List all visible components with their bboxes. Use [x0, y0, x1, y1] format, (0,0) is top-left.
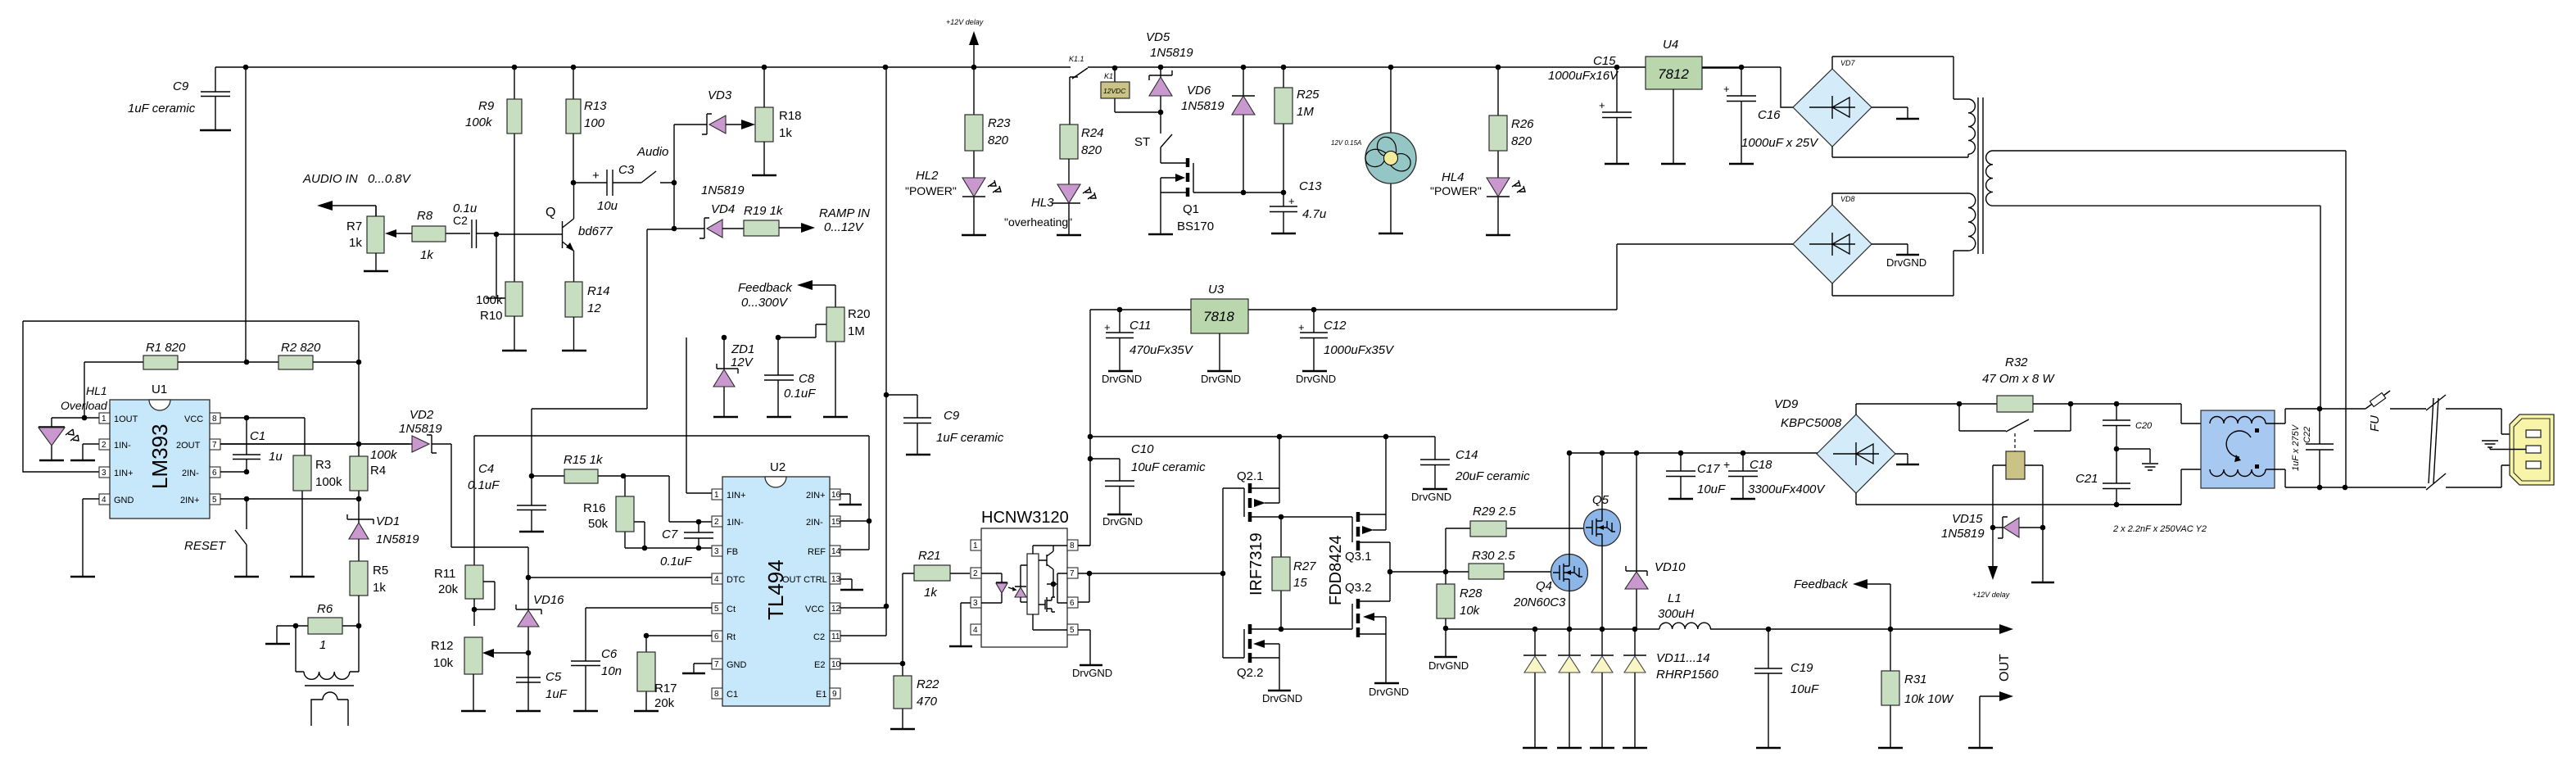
svg-text:VD6: VD6	[1187, 84, 1211, 97]
svg-text:10k: 10k	[433, 656, 454, 670]
svg-text:8: 8	[212, 414, 217, 423]
svg-text:R29 2.5: R29 2.5	[1473, 505, 1516, 519]
svg-text:5: 5	[212, 496, 217, 505]
ground K1 coil right	[2042, 528, 2044, 582]
svg-text:C11: C11	[1130, 319, 1151, 333]
wire Q4/Q5 sources to output rail	[1569, 546, 1602, 629]
svg-text:3: 3	[102, 469, 106, 478]
svg-text:2: 2	[102, 441, 106, 450]
fuse FU	[2320, 391, 2426, 432]
wire U2 pin11 C2 up	[840, 608, 886, 636]
svg-text:1k: 1k	[420, 248, 434, 262]
wire base wire to Q	[496, 233, 562, 235]
svg-text:R15 1k: R15 1k	[564, 453, 604, 467]
svg-text:1000uFx16V: 1000uFx16V	[1548, 69, 1619, 83]
svg-text:1IN-: 1IN-	[727, 518, 744, 528]
potentiometer R11	[434, 565, 495, 626]
resistor R13	[566, 67, 607, 183]
svg-text:0.1uF: 0.1uF	[660, 555, 692, 568]
wire U1 pin7 2OUT row	[220, 443, 410, 445]
svg-text:7818: 7818	[1203, 309, 1234, 324]
svg-text:C1: C1	[727, 690, 738, 700]
svg-text:KBPC5008: KBPC5008	[1781, 416, 1842, 430]
wire U2 pin10 E2	[840, 663, 903, 664]
svg-text:300uH: 300uH	[1658, 607, 1694, 621]
svg-text:+12V delay: +12V delay	[1972, 591, 2010, 599]
ground C20/C21 mid earth	[2116, 449, 2150, 463]
wire VD8 right DrvGND	[1872, 244, 1908, 254]
svg-text:HCNW3120: HCNW3120	[981, 509, 1069, 527]
svg-text:1N5819: 1N5819	[1181, 99, 1225, 113]
svg-text:"POWER": "POWER"	[905, 184, 957, 197]
svg-text:10k: 10k	[1460, 604, 1481, 618]
capacitor C22	[2291, 406, 2347, 491]
svg-text:12VDC: 12VDC	[1103, 87, 1126, 95]
svg-text:10u: 10u	[597, 199, 618, 213]
wire VD7 to winding1	[1832, 57, 1968, 157]
svg-text:DrvGND: DrvGND	[1072, 667, 1112, 679]
svg-text:R32: R32	[2005, 356, 2028, 369]
svg-text:C9: C9	[173, 79, 189, 93]
resistor R17	[634, 633, 712, 711]
svg-text:R18: R18	[779, 109, 802, 123]
resistor R32	[1982, 356, 2116, 412]
wire audio-in arrow	[324, 206, 376, 233]
svg-text:+12V delay: +12V delay	[946, 18, 984, 26]
svg-text:C1: C1	[250, 429, 265, 443]
svg-text:R24: R24	[1081, 126, 1104, 140]
svg-text:100k: 100k	[370, 448, 398, 462]
winding primary T1	[1986, 151, 2346, 206]
svg-text:1N5819: 1N5819	[399, 422, 442, 436]
wire HV rail y553	[1569, 452, 1818, 454]
svg-text:100k: 100k	[476, 293, 503, 307]
svg-text:10uF: 10uF	[1791, 682, 1819, 696]
svg-text:R17: R17	[654, 682, 677, 695]
svg-text:C9: C9	[944, 409, 960, 423]
bridge VD7	[1793, 59, 1872, 147]
svg-text:BS170: BS170	[1177, 220, 1214, 233]
svg-text:U4: U4	[1663, 38, 1678, 52]
svg-text:Q: Q	[546, 206, 555, 220]
svg-text:R16: R16	[583, 501, 606, 515]
svg-text:R21: R21	[918, 549, 941, 563]
label Feedback right	[1794, 577, 1890, 629]
svg-text:K1.1: K1.1	[1069, 55, 1084, 63]
bridge VD8	[1793, 195, 1872, 283]
wire DrvVCC rail x1331	[1078, 310, 1090, 546]
resistor R3	[290, 455, 342, 577]
svg-text:VD1: VD1	[376, 514, 400, 528]
svg-text:Feedback: Feedback	[738, 281, 793, 295]
svg-text:1: 1	[973, 541, 978, 550]
capacitor C8	[764, 335, 816, 417]
svg-text:820: 820	[1511, 134, 1532, 148]
node base junction	[494, 232, 500, 238]
wire R10 wiper tap	[486, 234, 505, 298]
svg-text:1uF ceramic: 1uF ceramic	[936, 431, 1004, 445]
rheostat R16	[583, 476, 712, 548]
wire DTC node column VD16/C5	[494, 577, 528, 710]
svg-text:1IN-: 1IN-	[114, 441, 131, 451]
svg-text:8: 8	[1070, 541, 1075, 550]
capacitor C21	[2076, 446, 2130, 505]
svg-text:6: 6	[212, 469, 217, 478]
wire U2 pin13 ground	[840, 579, 852, 589]
svg-text:HL4: HL4	[1442, 170, 1465, 184]
svg-text:10uF ceramic: 10uF ceramic	[1131, 460, 1206, 474]
wire U-opto pin8	[1078, 545, 1090, 546]
wire U2 pin12 VCC	[840, 606, 886, 608]
svg-text:11: 11	[831, 632, 840, 641]
svg-text:C2: C2	[453, 214, 468, 227]
svg-text:RHRP1560: RHRP1560	[1656, 668, 1719, 682]
diode VD4	[674, 202, 744, 238]
svg-text:DrvGND: DrvGND	[1428, 659, 1469, 672]
wire VD9 bottom to y616	[1856, 493, 2181, 505]
svg-text:2: 2	[973, 569, 978, 578]
capacitor C1	[233, 418, 283, 472]
svg-text:C22: C22	[2302, 427, 2312, 443]
ground HL1 second	[83, 444, 102, 460]
wire U4 out	[1702, 67, 1741, 69]
transistor Q bd677	[546, 183, 613, 282]
wire U-opto pin3 ground	[961, 603, 971, 645]
node audio switch node	[672, 180, 677, 186]
svg-text:VD11...14: VD11...14	[1656, 651, 1710, 665]
svg-text:0...0.8V: 0...0.8V	[368, 172, 412, 186]
svg-text:C3: C3	[618, 163, 635, 177]
svg-text:20k: 20k	[438, 582, 459, 596]
wire rail y533 to right	[1090, 437, 1435, 460]
wire R1-R2 row	[84, 362, 359, 418]
svg-text:R14: R14	[587, 284, 610, 298]
svg-text:1N5819: 1N5819	[376, 532, 419, 546]
svg-text:VD8: VD8	[1840, 195, 1855, 203]
label +12V delay top	[946, 18, 984, 67]
svg-text:1000uF x 25V: 1000uF x 25V	[1741, 136, 1819, 150]
svg-text:2IN+: 2IN+	[806, 491, 826, 500]
svg-text:C18: C18	[1750, 458, 1772, 472]
wire U1 pin4 GND	[83, 499, 99, 576]
diode VD1	[347, 499, 419, 561]
svg-text:R4: R4	[370, 464, 386, 478]
resistor R8	[385, 209, 470, 262]
svg-text:5: 5	[1070, 626, 1075, 635]
svg-text:C17: C17	[1697, 462, 1720, 476]
svg-text:R26: R26	[1511, 117, 1534, 131]
svg-text:1IN+: 1IN+	[114, 469, 134, 478]
wire R32 row to choke	[2116, 404, 2210, 505]
resistor R14	[562, 282, 610, 351]
diode VD15	[1941, 512, 2045, 541]
svg-text:2 x 2.2nF x 250VAC Y2: 2 x 2.2nF x 250VAC Y2	[2112, 524, 2207, 534]
resistor R2	[278, 341, 321, 369]
transformer core	[305, 685, 354, 686]
svg-text:DrvGND: DrvGND	[1411, 491, 1451, 503]
bridge VD9 KBPC5008	[1774, 397, 1895, 493]
relay-coil K1	[1070, 66, 1161, 125]
svg-text:C16: C16	[1758, 108, 1781, 122]
capacitor C20	[2103, 401, 2153, 449]
potentiometer R7	[346, 206, 388, 271]
switch RESET	[235, 530, 247, 576]
svg-text:R19 1k: R19 1k	[744, 204, 784, 218]
winding aux2	[1968, 193, 1976, 251]
svg-text:Q4: Q4	[1536, 579, 1552, 593]
svg-text:DrvGND: DrvGND	[1262, 692, 1302, 704]
svg-text:3: 3	[714, 547, 719, 556]
zener ZD1	[713, 335, 754, 417]
svg-text:C15: C15	[1593, 54, 1616, 68]
wire VD8 output to U3 rail	[1090, 244, 1793, 310]
svg-text:1N5819: 1N5819	[701, 183, 745, 197]
svg-text:bd677: bd677	[578, 224, 613, 238]
capacitor C7	[660, 522, 713, 568]
node C3 junction	[571, 180, 577, 186]
connector mains inlet	[2482, 414, 2554, 485]
svg-text:1N5819: 1N5819	[1941, 527, 1985, 541]
wire R15 to U2 pin2	[623, 476, 712, 522]
wire gate drive pin7 to IRF gates	[1078, 573, 1223, 602]
svg-text:1k: 1k	[779, 126, 792, 140]
svg-text:GND: GND	[114, 496, 134, 505]
diode VD10	[1625, 453, 1686, 629]
capacitor C14	[1411, 448, 1530, 503]
svg-text:R1 820: R1 820	[146, 341, 186, 355]
svg-text:"POWER": "POWER"	[1430, 184, 1482, 197]
wire Q4/Q5 drains to HV rail	[1569, 453, 1602, 555]
ground R28 DrvGND	[1445, 628, 1446, 656]
wire FDD midpoint to gate resistors	[1390, 571, 1446, 573]
resistor R6	[277, 602, 359, 652]
transformer current sense primary	[296, 626, 359, 679]
svg-text:10n: 10n	[601, 664, 622, 678]
svg-text:R22: R22	[917, 677, 939, 691]
svg-text:VCC: VCC	[805, 605, 824, 614]
svg-text:OUT CTRL: OUT CTRL	[782, 575, 827, 585]
svg-text:7: 7	[714, 660, 719, 669]
capacitor C17	[1666, 453, 1726, 499]
svg-text:C5: C5	[546, 670, 562, 684]
svg-text:R28: R28	[1460, 587, 1483, 600]
svg-text:8: 8	[714, 690, 719, 699]
svg-text:R6: R6	[317, 602, 333, 616]
svg-text:10k 10W: 10k 10W	[1904, 692, 1954, 706]
diode VD2	[220, 408, 528, 577]
switch K1.1 in rail	[1069, 55, 1088, 79]
ground Q3.2 DrvGND	[1374, 682, 1399, 685]
switch Audio select	[641, 171, 674, 183]
LED HL1	[38, 384, 108, 460]
diode VD5	[1146, 30, 1193, 112]
label OUT + arrows	[1968, 654, 2013, 748]
LED HL3	[1004, 184, 1096, 235]
svg-text:2IN-: 2IN-	[806, 518, 823, 528]
svg-text:4.7u: 4.7u	[1302, 207, 1327, 221]
svg-text:VD10: VD10	[1655, 560, 1686, 574]
capacitor C13	[1270, 179, 1327, 233]
svg-text:"overheating": "overheating"	[1004, 215, 1072, 229]
svg-text:+: +	[1599, 99, 1605, 111]
wire VD9 top to R32 row	[1856, 404, 1997, 414]
svg-text:13: 13	[831, 575, 841, 584]
svg-text:U2: U2	[770, 460, 785, 474]
mosfet Q5	[1584, 493, 1621, 546]
svg-text:Q1: Q1	[1183, 202, 1199, 216]
svg-text:2IN+: 2IN+	[180, 496, 200, 505]
svg-text:14: 14	[831, 547, 841, 556]
svg-text:C8: C8	[799, 372, 815, 386]
svg-text:C20: C20	[2135, 421, 2153, 431]
svg-text:1M: 1M	[1297, 105, 1314, 119]
rheostat R20	[778, 280, 871, 417]
svg-text:7812: 7812	[1658, 66, 1689, 82]
svg-text:1: 1	[319, 638, 326, 652]
svg-text:9: 9	[832, 690, 837, 699]
choke common-mode T2	[2201, 409, 2320, 488]
svg-text:10uF: 10uF	[1697, 482, 1726, 496]
svg-text:47 Om x 8 W: 47 Om x 8 W	[1982, 372, 2055, 386]
switch R32 bypass	[1959, 404, 2071, 432]
wire U1 pin5 row	[220, 499, 359, 529]
svg-text:Ct: Ct	[727, 605, 736, 614]
svg-text:R27: R27	[1293, 559, 1316, 573]
svg-text:L1: L1	[1668, 591, 1682, 605]
resistor R29	[1446, 505, 1584, 572]
svg-text:1: 1	[102, 414, 106, 423]
svg-text:+: +	[1104, 321, 1111, 333]
diode VD11	[1523, 629, 1547, 748]
resistor R28	[1437, 572, 1483, 628]
svg-text:20uF ceramic: 20uF ceramic	[1455, 469, 1530, 483]
wire VD8 to winding2	[1832, 193, 1968, 296]
wire VD4 node down to U2 1IN-	[532, 229, 674, 476]
svg-text:Audio: Audio	[636, 145, 668, 159]
op-amp U1 LM393	[99, 383, 220, 519]
wire DTC row to U2 pin4	[528, 577, 712, 578]
svg-text:16: 16	[831, 491, 841, 500]
svg-text:AUDIO IN: AUDIO IN	[302, 172, 358, 186]
svg-text:DrvGND: DrvGND	[1886, 256, 1926, 269]
svg-text:1: 1	[714, 491, 719, 500]
resistor R4	[350, 362, 398, 499]
switch mains DPST	[2426, 395, 2526, 490]
svg-text:1000uFx35V: 1000uFx35V	[1324, 343, 1395, 357]
wire U1 VCC row pin8	[220, 418, 305, 455]
capacitor C9	[128, 67, 231, 130]
svg-text:FU: FU	[2368, 415, 2382, 432]
svg-text:1N5819: 1N5819	[1150, 46, 1193, 60]
transistor Q1 BS170	[1148, 147, 1283, 234]
svg-text:0...12V: 0...12V	[824, 220, 865, 234]
relay-coil K1 thermistor box	[1993, 433, 2043, 528]
svg-text:VD2: VD2	[410, 408, 434, 422]
svg-text:HL1: HL1	[86, 384, 107, 397]
svg-text:R25: R25	[1297, 88, 1320, 102]
svg-text:Overload: Overload	[61, 399, 108, 412]
resistor R1	[143, 341, 186, 369]
fan M1	[1331, 67, 1416, 233]
capacitor C6	[571, 608, 712, 711]
diode VD3	[674, 88, 755, 134]
wire ZD1 rail to U2 pin1	[686, 337, 712, 493]
capacitor C4	[468, 462, 546, 532]
wire U2 pin15/pin14 REF link	[840, 521, 869, 550]
svg-text:Feedback: Feedback	[1794, 577, 1849, 591]
svg-text:IRF7319: IRF7319	[1247, 532, 1265, 596]
svg-text:E1: E1	[816, 690, 826, 700]
inductor L1	[1658, 591, 1710, 629]
diode VD12	[1557, 629, 1582, 748]
svg-text:2IN-: 2IN-	[182, 469, 199, 478]
svg-text:DrvGND: DrvGND	[1369, 686, 1409, 698]
winding aux1	[1968, 99, 1975, 157]
svg-text:20N60C3: 20N60C3	[1513, 596, 1566, 609]
resistor R26	[1489, 67, 1534, 178]
wire bottom mains row	[2320, 487, 2426, 488]
svg-text:+: +	[1298, 321, 1305, 333]
wire VD3/VD4 column	[673, 125, 675, 229]
svg-text:50k: 50k	[588, 517, 609, 531]
svg-text:7: 7	[1070, 569, 1075, 578]
svg-text:20k: 20k	[654, 696, 675, 710]
LED HL2	[905, 169, 1001, 235]
svg-text:100k: 100k	[315, 475, 342, 489]
svg-text:5: 5	[714, 605, 719, 614]
wire U2 pin16 ground	[840, 494, 850, 504]
wire left column from rail	[245, 67, 247, 362]
svg-text:VD4: VD4	[711, 202, 735, 216]
svg-text:1IN+: 1IN+	[727, 491, 746, 500]
svg-text:VD9: VD9	[1774, 397, 1799, 411]
svg-text:R10: R10	[480, 309, 503, 323]
resistor R21	[903, 549, 970, 664]
svg-text:VD5: VD5	[1146, 30, 1170, 44]
svg-text:7: 7	[212, 441, 217, 450]
resistor R30	[1446, 549, 1551, 579]
pwm-ic U2 TL494	[712, 460, 841, 706]
svg-text:1k: 1k	[349, 236, 362, 250]
svg-text:15: 15	[831, 518, 841, 527]
svg-text:0.1uF: 0.1uF	[784, 387, 816, 401]
svg-text:DrvGND: DrvGND	[1102, 515, 1143, 528]
svg-text:C4: C4	[478, 462, 494, 476]
wire VD9 right ground	[1895, 454, 1908, 464]
svg-text:Q2.2: Q2.2	[1237, 666, 1264, 680]
svg-text:820: 820	[1081, 143, 1102, 157]
svg-text:C13: C13	[1299, 179, 1322, 193]
wire U2 pin7 GND	[694, 664, 712, 673]
transistor Q2.1 IRF7319 upper	[1223, 437, 1352, 658]
resistor R27	[1272, 517, 1316, 629]
svg-text:DrvGND: DrvGND	[1102, 373, 1142, 385]
svg-text:15: 15	[1293, 576, 1307, 590]
svg-text:+: +	[1288, 195, 1295, 207]
svg-text:C2: C2	[813, 632, 825, 642]
svg-text:1OUT: 1OUT	[114, 414, 138, 424]
diode VD14	[1623, 629, 1719, 748]
svg-text:RAMP IN: RAMP IN	[819, 206, 870, 220]
mosfet Q4 20N60C3	[1513, 555, 1588, 610]
switch ST	[1134, 112, 1172, 149]
svg-text:R13: R13	[584, 99, 607, 113]
svg-text:HL3: HL3	[1031, 196, 1054, 210]
capacitor C9 second 1uF ceramic	[884, 392, 1004, 455]
resistor R18	[752, 67, 802, 175]
resistor R23	[965, 67, 1011, 178]
capacitor C10	[1090, 442, 1206, 528]
